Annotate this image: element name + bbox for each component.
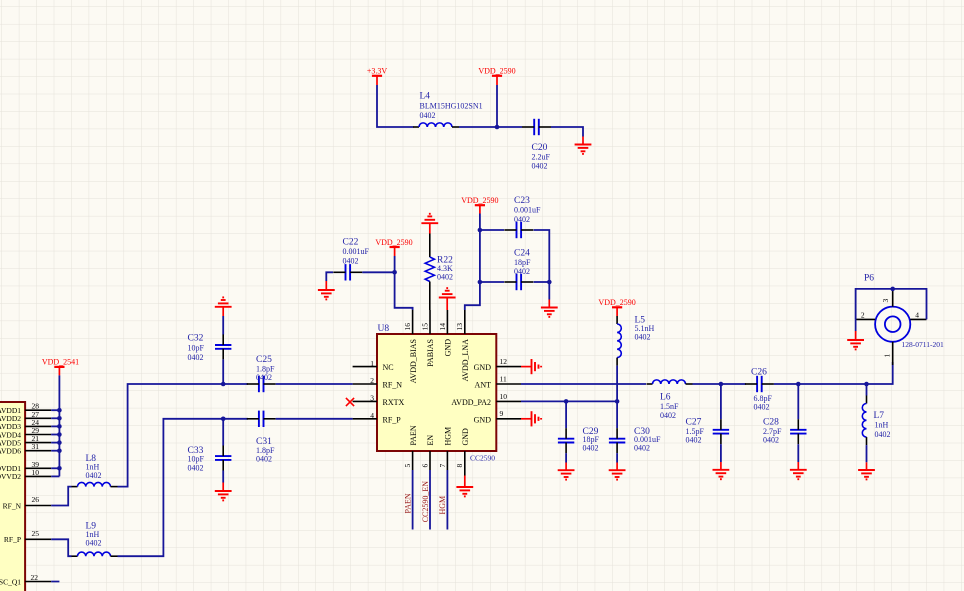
wire to C23 (480, 229, 504, 231)
svg-text:9: 9 (500, 409, 504, 418)
net label PAEN (403, 493, 412, 513)
connector pin 39 (DVDD1) (0, 460, 51, 473)
P6 coax symbol (875, 307, 910, 342)
svg-text:1nH: 1nH (875, 421, 889, 430)
wire CC2590_EN (429, 470, 431, 530)
junction bus (57, 448, 62, 453)
capacitor C30 (609, 428, 625, 453)
svg-text:0402: 0402 (763, 435, 779, 444)
wire C25 to pin 2 (276, 383, 353, 385)
svg-text:GND: GND (474, 363, 492, 372)
wire ground to C22 (326, 272, 333, 281)
ground (C20) (575, 137, 592, 154)
svg-text:EN: EN (426, 435, 435, 446)
net label CC2590_EN (421, 481, 430, 523)
svg-text:0402: 0402 (188, 353, 204, 362)
svg-text:1: 1 (882, 354, 891, 358)
wire RF_P to L9 (51, 539, 71, 556)
wire L7 to ground (866, 445, 868, 462)
svg-text:RF_N: RF_N (3, 501, 22, 510)
wire C22 to node (362, 271, 394, 273)
svg-text:BLM15HG102SN1: BLM15HG102SN1 (420, 102, 483, 111)
U8 pin 7 (HGM) (438, 427, 453, 470)
svg-text:AVDD_LNA: AVDD_LNA (461, 339, 470, 382)
wire L9 to RF_P net (118, 419, 224, 556)
power +3.3V (367, 67, 388, 86)
svg-text:22: 22 (31, 573, 39, 582)
wire PAEN (412, 470, 414, 530)
svg-text:VDD_2541: VDD_2541 (42, 358, 79, 367)
wire to ground (C24) (548, 282, 550, 300)
junction C24 left (478, 280, 483, 285)
svg-text:0402: 0402 (343, 256, 359, 265)
C25 labels (256, 355, 275, 382)
connector pin 26 (RF_N) (3, 495, 52, 510)
svg-text:5: 5 (403, 464, 412, 468)
ground side (pin 9) (521, 411, 541, 426)
ground (pin 8) (456, 476, 473, 497)
svg-text:7: 7 (438, 464, 447, 468)
junction C23 left (478, 228, 483, 233)
ground (C30) (609, 463, 626, 480)
ground (L7) (858, 462, 875, 479)
U8 pin 16 (AVDD_BIAS) (403, 310, 418, 383)
wire pin to bus (51, 409, 59, 411)
inductor L5 (617, 316, 621, 366)
wire pin to bus (51, 425, 59, 427)
C23 labels (514, 196, 541, 224)
inductor L9 (72, 552, 118, 556)
junction bus (57, 432, 62, 437)
wire VDD to node (394, 256, 396, 272)
capacitor C33 (215, 446, 231, 471)
op-amp U8 body (CC2590) (377, 334, 496, 451)
svg-text:0402: 0402 (420, 111, 436, 120)
C22 labels (343, 238, 370, 266)
svg-text:DVVD2: DVVD2 (0, 472, 21, 481)
wire row10 to C30 (616, 401, 618, 428)
svg-text:0402: 0402 (660, 411, 676, 420)
svg-text:0402: 0402 (875, 430, 891, 439)
wire C28 to ground (797, 444, 799, 462)
svg-text:10: 10 (32, 468, 40, 477)
svg-text:GND: GND (444, 339, 453, 357)
wire C23/C24 left vertical (465, 230, 480, 310)
inductor L7 (862, 396, 866, 446)
wire L5 to AVDD_PA2 row (616, 366, 618, 402)
svg-text:14: 14 (438, 323, 447, 331)
svg-text:15: 15 (420, 323, 429, 331)
svg-text:18pF: 18pF (514, 258, 531, 267)
U8 pin 14 (GND) (438, 310, 453, 356)
svg-text:10pF: 10pF (188, 455, 205, 464)
svg-text:AVDD6: AVDD6 (0, 447, 21, 456)
ground (C27) (713, 462, 730, 479)
power VDD_2590 (top) (478, 67, 515, 86)
svg-text:3: 3 (370, 394, 374, 403)
P6 pin 3 (881, 289, 893, 307)
U8 pin 11 (ANT) (475, 374, 521, 389)
capacitor C27 (713, 419, 729, 444)
inductor L6 (647, 380, 693, 384)
ground (C22) (318, 281, 335, 299)
svg-text:4: 4 (370, 411, 374, 420)
svg-text:CC2590: CC2590 (470, 453, 495, 462)
svg-text:1.8pF: 1.8pF (256, 446, 275, 455)
ground (C28) (790, 462, 807, 479)
svg-text:CC2590_EN: CC2590_EN (421, 481, 430, 523)
junction C29/row10 (564, 399, 569, 404)
ground (C29) (558, 463, 575, 480)
svg-text:25: 25 (32, 529, 40, 538)
svg-text:0402: 0402 (86, 471, 102, 480)
wire pin to bus (51, 450, 59, 452)
junction VDD_2590/C20 (495, 125, 500, 130)
power VDD_2590 (L5) (598, 298, 635, 316)
svg-text:HGM: HGM (438, 496, 447, 515)
wire RF_N to L8 (51, 487, 71, 506)
U8 designator (378, 324, 390, 334)
wire L6 to C27 node (693, 383, 721, 385)
connector pin 22 (OSC_Q1) (0, 573, 59, 586)
junction C33/RF_P (221, 417, 226, 422)
U8 pin 1 (NC) (353, 359, 394, 372)
junction bus (57, 440, 62, 445)
connector pin 31 (AVDD6) (0, 442, 51, 455)
wire ANT to L7 (866, 384, 868, 396)
svg-text:RF_P: RF_P (4, 535, 21, 544)
junction P6 pin 3 (890, 287, 895, 292)
capacitor C32 (215, 334, 231, 359)
wire RF_N to C25 (223, 383, 248, 385)
connector pin 28 (AVDD1) (0, 402, 51, 415)
connector pin 24 (AVDD3) (0, 418, 51, 431)
svg-text:0402: 0402 (437, 272, 453, 281)
power VDD_2541 (42, 358, 79, 376)
svg-text:ANT: ANT (475, 381, 492, 390)
connector pin 29 (AVDD4) (0, 426, 51, 439)
ground (C23/C24) (541, 300, 558, 317)
svg-text:0402: 0402 (686, 435, 702, 444)
wire C31 to pin 4 (276, 418, 353, 420)
U8 pin 6 (EN) (420, 435, 435, 470)
U8 pin 8 (GND) (455, 428, 470, 476)
L4 labels (420, 92, 483, 121)
capacitor C28 (790, 419, 806, 444)
wire C33 to ground (222, 471, 224, 483)
C31 labels (256, 437, 275, 464)
C24 labels (514, 249, 531, 276)
wire ground to C32 (222, 316, 224, 335)
wire C28 node to L7 node (798, 383, 866, 385)
U8 pin 15 (PABIAS) (420, 310, 435, 367)
wire ANT to C28 (797, 384, 799, 419)
wire pin to bus (51, 467, 59, 469)
svg-text:128-0711-201: 128-0711-201 (902, 340, 944, 349)
wire C26 to C28 node (774, 383, 798, 385)
svg-text:VDD_2590: VDD_2590 (375, 238, 412, 247)
wire C33 top (222, 419, 224, 446)
svg-text:10: 10 (500, 392, 508, 401)
junction C32/RF_N (221, 382, 226, 387)
P6 part number (902, 340, 944, 349)
C33 labels (188, 446, 205, 473)
wire to C24 (480, 281, 504, 283)
ground inverted (R22 top) (421, 214, 438, 234)
svg-text:26: 26 (32, 495, 40, 504)
wire pin 10 to bus (51, 475, 59, 477)
wire C20 to ground (551, 127, 583, 137)
wire L7 node to P6 (867, 362, 893, 384)
P6 pin 2 (856, 310, 876, 319)
C32 labels (188, 334, 205, 362)
wire node to C20 (497, 126, 522, 128)
wire L8 to RF_N net (118, 384, 224, 487)
inductor L8 (72, 482, 118, 486)
svg-text:0402: 0402 (634, 443, 650, 452)
junction bus (57, 408, 62, 413)
svg-text:VDD_2590: VDD_2590 (461, 196, 498, 205)
svg-text:GND: GND (474, 415, 492, 424)
U8 pin 2 (RF_N) (353, 376, 403, 389)
wire C32 to RF_N (222, 359, 224, 384)
L9 labels (86, 522, 102, 548)
connector pin 21 (AVDD5) (0, 434, 51, 447)
wire AVDD_PA2 row (521, 400, 617, 402)
wire VDD to C23 node (479, 214, 481, 231)
svg-text:VDD_2590: VDD_2590 (598, 298, 635, 307)
wire HGM (446, 470, 448, 530)
svg-text:PAEN: PAEN (409, 425, 418, 445)
svg-text:RF_N: RF_N (383, 381, 403, 390)
ground side (pin 12) (521, 359, 541, 374)
U8 pin 10 (AVDD_PA2) (451, 392, 521, 407)
wire C30 to ground (616, 453, 618, 462)
C30 labels (634, 427, 661, 452)
L7 labels (874, 411, 891, 439)
svg-text:PAEN: PAEN (403, 493, 412, 513)
svg-text:0402: 0402 (86, 538, 102, 547)
svg-text:L6: L6 (660, 393, 671, 403)
junction C30/L5/row10 (615, 399, 620, 404)
svg-text:16: 16 (403, 323, 412, 331)
svg-text:GND: GND (461, 428, 470, 446)
ground inverted (pin 14) (439, 288, 456, 310)
wire L4 to VDD_2590 node (459, 126, 497, 128)
L8 labels (86, 454, 102, 480)
svg-text:PABIAS: PABIAS (426, 339, 435, 367)
U8 pin 12 (GND) (474, 357, 521, 372)
svg-text:RXTX: RXTX (383, 398, 405, 407)
svg-text:2.2uF: 2.2uF (532, 152, 551, 161)
C27 labels (686, 417, 705, 444)
P6 pin 1 (882, 342, 892, 365)
wire VDD_2541 bus (58, 375, 60, 476)
svg-text:0402: 0402 (514, 267, 530, 276)
P6 pin 4 (910, 310, 926, 319)
svg-text:8: 8 (455, 464, 464, 468)
junction C22/VDD (392, 270, 397, 275)
svg-text:HGM: HGM (444, 427, 453, 446)
wire pin to bus (51, 417, 59, 419)
wire C27 to ground (720, 444, 722, 462)
wire pin to bus (51, 442, 59, 444)
svg-text:0402: 0402 (583, 443, 599, 452)
ground inverted (C32) (215, 297, 232, 316)
svg-text:1: 1 (370, 359, 374, 368)
svg-text:4: 4 (915, 310, 919, 319)
svg-text:+3.3V: +3.3V (367, 67, 388, 76)
svg-text:C25: C25 (256, 355, 272, 365)
svg-text:6: 6 (420, 464, 429, 468)
no-ERC marker at pin 3 (RXTX) (346, 398, 354, 406)
wire pin to bus (51, 434, 59, 436)
svg-text:C32: C32 (188, 334, 204, 344)
svg-text:0.001uF: 0.001uF (343, 247, 370, 256)
wire VDD_2590 down (496, 85, 498, 127)
connector pin 25 (RF_P) (4, 529, 51, 544)
svg-text:0402: 0402 (635, 333, 651, 342)
L6 labels (660, 393, 679, 420)
L5 labels (635, 316, 655, 342)
C28 labels (763, 417, 782, 444)
svg-text:L7: L7 (874, 411, 885, 421)
svg-text:AVDD_BIAS: AVDD_BIAS (409, 339, 418, 383)
svg-text:0402: 0402 (754, 402, 770, 411)
power VDD_2590 (C23) (461, 196, 498, 214)
wire ANT to C27 (720, 384, 722, 419)
svg-text:C23: C23 (514, 196, 530, 206)
capacitor C25 (247, 376, 276, 392)
U8 part number CC2590 (470, 453, 495, 462)
capacitor C26 (745, 376, 774, 392)
svg-text:1.5nF: 1.5nF (660, 402, 679, 411)
svg-text:U8: U8 (378, 324, 390, 334)
R22 labels (437, 255, 453, 281)
svg-text:11: 11 (500, 374, 507, 383)
capacitor C24 (504, 274, 533, 290)
ferrite bead L4 (413, 123, 459, 127)
U8 pin 4 (RF_P) (353, 411, 402, 424)
svg-text:AVDD_PA2: AVDD_PA2 (451, 398, 491, 407)
wire C27 node to C26 (721, 383, 746, 385)
junction C28/ANT (796, 382, 801, 387)
ground (P6 pin 2) (847, 319, 864, 349)
connector (left, off-sheet) body (0, 402, 25, 591)
svg-text:1.8pF: 1.8pF (256, 365, 275, 374)
svg-text:0402: 0402 (256, 455, 272, 464)
capacitor C29 (558, 428, 574, 453)
svg-text:RF_P: RF_P (383, 415, 402, 424)
junction L7/ANT (864, 382, 869, 387)
svg-text:3: 3 (881, 299, 890, 303)
U8 pin 3 (RXTX) (353, 394, 405, 407)
svg-text:OSC_Q1: OSC_Q1 (0, 577, 21, 586)
svg-text:10pF: 10pF (188, 344, 205, 353)
power VDD_2590 (pin16) (375, 238, 412, 256)
svg-text:12: 12 (500, 357, 508, 366)
svg-text:C26: C26 (751, 368, 767, 378)
svg-text:31: 31 (32, 442, 40, 451)
svg-text:0402: 0402 (514, 215, 530, 224)
svg-text:0402: 0402 (256, 373, 272, 382)
ground (C33) (215, 483, 232, 501)
wire RF_P to C31 (223, 418, 248, 420)
svg-text:L4: L4 (420, 92, 431, 102)
wire C23 right down (534, 230, 550, 282)
junction bus (57, 424, 62, 429)
svg-text:VDD_2590: VDD_2590 (478, 67, 515, 76)
C29 labels (583, 427, 600, 452)
svg-text:2: 2 (370, 376, 374, 385)
capacitor C22 (333, 264, 362, 280)
svg-text:C22: C22 (343, 238, 359, 248)
svg-text:C28: C28 (763, 417, 779, 427)
wire C24 right (534, 281, 550, 283)
net label HGM (438, 496, 447, 515)
svg-text:0402: 0402 (188, 463, 204, 472)
wire C29 to ground (565, 453, 567, 462)
wire P6 pin3 loop (856, 289, 927, 320)
U8 pin 9 (GND) (474, 409, 521, 424)
svg-text:5.1nH: 5.1nH (635, 324, 655, 333)
wire +3.3V to L4 (377, 85, 414, 127)
svg-text:0402: 0402 (532, 162, 548, 171)
connector pin 27 (AVDD2) (0, 410, 51, 423)
C20 labels (532, 143, 551, 171)
junction C24 right (547, 280, 552, 285)
junction C27/ANT (719, 382, 724, 387)
connector pin 10 (DVVD2) (0, 468, 51, 481)
junction bus (57, 416, 62, 421)
wire ANT row (pin 11 to L6) (521, 383, 646, 385)
wire node to pin 16 (395, 272, 413, 310)
svg-text:P6: P6 (864, 274, 874, 284)
svg-text:NC: NC (383, 363, 394, 372)
connector P6 designator (864, 274, 874, 284)
resistor R22 (425, 234, 434, 311)
svg-text:2: 2 (861, 310, 865, 319)
svg-text:C27: C27 (686, 417, 702, 427)
U8 pin 13 (AVDD_LNA) (455, 310, 470, 382)
capacitor C23 (504, 222, 533, 238)
C26 labels (751, 368, 773, 412)
wire row10 to C29 (565, 401, 567, 428)
svg-text:0.001uF: 0.001uF (514, 206, 541, 215)
U8 pin 5 (PAEN) (403, 425, 418, 470)
svg-text:13: 13 (455, 323, 464, 331)
junction bus (57, 466, 62, 471)
capacitor C20 (522, 119, 551, 135)
capacitor C31 (247, 411, 276, 427)
